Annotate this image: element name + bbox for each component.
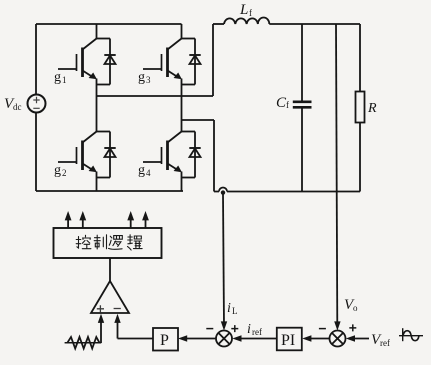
wire: node B right-leg midpoint (182, 119, 215, 121)
source: triangle carrier symbol (65, 337, 102, 349)
svg-text:R: R (367, 101, 377, 116)
svg-text:i: i (227, 301, 231, 316)
diode D4 (antiparallel with g4) (182, 132, 201, 178)
svg-text:g: g (138, 70, 145, 85)
op-amp comparator U1 (91, 281, 129, 313)
label g1 (54, 70, 67, 85)
label g3 (138, 70, 151, 85)
svg-text:g: g (138, 163, 145, 178)
svg-text:PI: PI (281, 332, 295, 349)
svg-text:g: g (54, 70, 61, 85)
wire: left rail lower (Vdc bottom lead) (35, 113, 37, 192)
label Vdc (4, 96, 22, 112)
svg-text:ref: ref (252, 327, 262, 337)
wire: top bus from Vdc+ to g3 collector corner (36, 23, 182, 25)
svg-text:4: 4 (146, 168, 151, 178)
transistor g4 (IGBT, bottom-right) (143, 120, 182, 191)
svg-text:f: f (249, 8, 252, 18)
wire: S2 output into PI (302, 335, 329, 341)
source Vdc (28, 95, 46, 113)
label S1 minus (206, 328, 213, 330)
block P (153, 328, 178, 351)
svg-text:o: o (353, 303, 358, 313)
label R (367, 101, 377, 116)
label Vo (344, 297, 358, 313)
label iL (227, 301, 238, 316)
wire: gate drive arrow 2 (79, 211, 86, 228)
svg-text:L: L (239, 2, 248, 18)
wire: gate drive arrow 1 (65, 211, 72, 228)
resistor R (356, 24, 365, 192)
label S2 minus (319, 328, 326, 330)
label iref (247, 322, 262, 337)
transistor g1 (IGBT, top-left) (58, 24, 97, 96)
wire: load bottom bus with hop at current tap (214, 188, 360, 192)
summer S2 (Vo vs Vref) (330, 331, 346, 347)
source: sine reference symbol (399, 328, 423, 341)
block: control logic box (54, 228, 162, 258)
svg-text:i: i (247, 322, 251, 337)
svg-text:1: 1 (62, 75, 67, 85)
transistor g3 (IGBT, top-right) (143, 24, 182, 120)
wire: Vref into S2 (346, 335, 369, 341)
wire: P output to comparator minus input (114, 314, 153, 339)
wire: riser from node A up to Lf input (212, 24, 214, 96)
svg-text:2: 2 (62, 168, 67, 178)
wire: carrier input to comparator plus input (98, 314, 104, 343)
label g2 (54, 163, 67, 178)
svg-text:ref: ref (380, 338, 390, 348)
transistor g2 (IGBT, bottom-left) (58, 96, 97, 191)
svg-text:dc: dc (13, 102, 22, 112)
wire: node A left-leg midpoint to Lf riser (97, 95, 214, 97)
wire: Vo sense line from output node down to summer S2 (334, 24, 340, 331)
diode D2 (antiparallel with g2) (97, 132, 116, 178)
label S2 plus (349, 324, 356, 331)
label Lf (239, 2, 252, 18)
label g4 (138, 163, 151, 178)
svg-text:g: g (54, 163, 61, 178)
wire: gate drive arrow 3 (127, 211, 134, 228)
wire: iL sense line from tap down to summer S1 (221, 194, 227, 331)
summer S1 (iL vs iref) (216, 331, 232, 347)
svg-text:P: P (160, 332, 169, 349)
block PI (277, 328, 302, 351)
label Vref (371, 332, 390, 348)
wire: comparator output up to control logic (109, 258, 111, 281)
diode D1 (antiparallel with g1) (97, 39, 116, 85)
wire: gate drive arrow 4 (142, 211, 149, 228)
inductor Lf (213, 18, 360, 24)
wire: bridge bottom bus (36, 190, 183, 192)
capacitor Cf (293, 24, 312, 192)
wire: iref from PI into S1 (232, 335, 276, 341)
junction: current sense tap (node iL) (221, 190, 225, 194)
label: control logic text (hanzi) (76, 235, 142, 250)
label Cf (276, 95, 289, 111)
svg-text:3: 3 (146, 75, 151, 85)
wire: S1 output into P (178, 335, 216, 341)
wire: drop from node B to load bottom bus (213, 120, 215, 192)
wire: left rail upper (Vdc top lead) (35, 24, 37, 95)
label S1 plus (231, 325, 238, 332)
svg-text:L: L (232, 306, 238, 316)
svg-text:f: f (286, 100, 289, 110)
diode D3 (antiparallel with g3) (182, 39, 201, 85)
